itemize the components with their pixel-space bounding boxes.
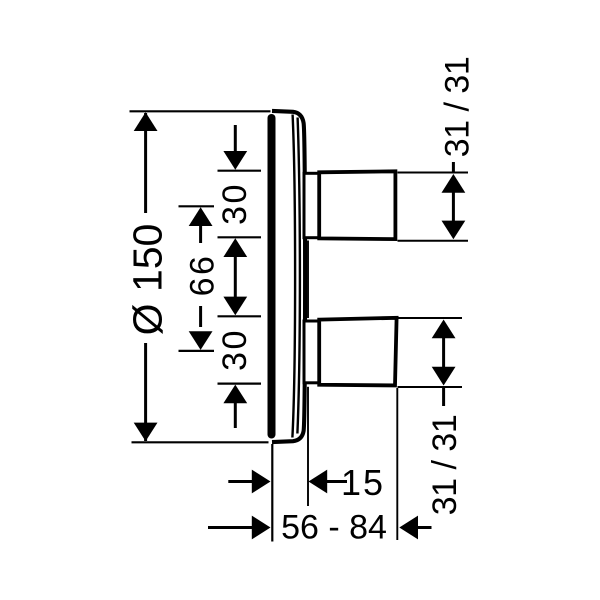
extension line below knob edge <box>396 388 398 540</box>
dimension D150 line upper segment <box>144 113 147 213</box>
arrowhead D150 down <box>134 423 158 442</box>
plate front face thick edge <box>268 118 276 435</box>
label 30 lower <box>216 328 254 371</box>
svg-text:15: 15 <box>341 462 385 503</box>
chain extension line knob1 bottom <box>218 236 262 238</box>
dimension 66 top stub <box>179 205 215 207</box>
handle 1 collar <box>304 173 319 237</box>
extension line top of plate (D150 top) <box>130 110 271 112</box>
dimension 66 bottom stub <box>179 350 215 352</box>
label D150 <box>125 224 171 336</box>
plate inner contour 2 <box>297 118 300 434</box>
dimension 31/31 knob2 <box>432 320 456 407</box>
label 30 upper <box>216 182 254 225</box>
svg-text:Ø 150: Ø 150 <box>125 224 171 336</box>
svg-text:31 / 31: 31 / 31 <box>439 57 477 157</box>
escutcheon plate silhouette <box>272 111 305 442</box>
extension line bottom of plate (D150 bottom) <box>132 441 269 443</box>
dimension 31/31 knob1 <box>442 162 466 239</box>
handle 2 collar <box>304 321 319 383</box>
dimension D150 line lower segment <box>144 343 147 441</box>
handle 2 body <box>319 318 396 386</box>
extension line knob1 bottom right <box>398 240 469 242</box>
chain extension line knob2 bottom <box>218 383 262 385</box>
dimension 66 arrows <box>189 207 213 350</box>
label 31/31 knob1 <box>439 57 477 157</box>
extension line knob1 top right <box>398 172 469 174</box>
label 56-84 <box>281 509 387 547</box>
handle 1 body <box>319 171 395 239</box>
label 31/31 knob2 <box>426 415 464 515</box>
wall line between knobs <box>307 241 309 319</box>
extension line knob2 top right <box>398 317 463 319</box>
dimension 15 right arrow <box>309 470 348 494</box>
dimension 56-84 right arrow <box>399 516 431 540</box>
label 15 <box>341 462 385 503</box>
svg-text:30: 30 <box>216 328 254 371</box>
arrowhead D150 up <box>134 112 158 131</box>
chain arrow below knob2 bottom <box>223 385 247 428</box>
chain arrow above knob1 top <box>223 125 247 170</box>
svg-text:31 / 31: 31 / 31 <box>426 415 464 515</box>
svg-text:66: 66 <box>184 254 222 297</box>
label 66 <box>184 254 222 297</box>
extension line below plate face <box>271 444 273 542</box>
dimension 15 left arrow <box>228 470 270 494</box>
plate inner contour 1 <box>292 115 295 438</box>
svg-text:56 - 84: 56 - 84 <box>281 509 387 547</box>
extension line knob2 bottom right <box>398 386 463 388</box>
chain double arrow between knobs <box>223 238 247 315</box>
chain extension line knob1 top <box>218 170 262 172</box>
chain extension line knob2 top <box>218 315 262 317</box>
dimension 56-84 left arrow <box>208 516 271 540</box>
wall line below knob2 <box>307 387 309 506</box>
svg-text:30: 30 <box>216 182 254 225</box>
